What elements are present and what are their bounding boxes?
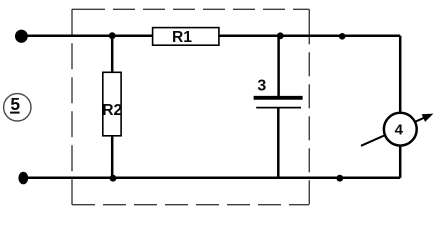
svg-text:3: 3: [257, 78, 266, 95]
enclosure dashed box: [72, 9, 309, 204]
wire: capacitor top lead: [277, 36, 280, 96]
meter U (labelled 4) arrowhead: [422, 114, 434, 122]
svg-text:R1: R1: [172, 29, 192, 46]
circled label 5: [4, 94, 31, 121]
wire: capacitor bottom lead: [277, 108, 280, 178]
junction node at capacitor top: [277, 32, 284, 39]
svg-text:4: 4: [395, 121, 404, 138]
junction node at R2 top: [109, 32, 116, 39]
resistor R2: [102, 72, 122, 136]
resistor R1: [153, 28, 219, 47]
wire: top bus from left terminal to right corner: [21, 35, 400, 38]
wire: R2 branch vertical: [111, 36, 114, 178]
wire: bottom bus from left terminal to right corner: [23, 177, 400, 180]
terminal node bottom-left: [18, 172, 28, 185]
meter U (labelled 4) arrow shaft: [361, 116, 429, 146]
meter U (labelled 4) body circle: [384, 113, 417, 146]
wire: right vertical through meter: [399, 36, 402, 178]
node top-right: [339, 33, 346, 40]
svg-text:5: 5: [10, 94, 20, 114]
capacitor C (labelled 3) top plate: [254, 96, 303, 100]
junction node at R2 bottom: [110, 175, 117, 182]
capacitor C (labelled 3) bottom plate: [256, 107, 301, 109]
node bottom-right: [336, 175, 343, 182]
svg-text:R2: R2: [102, 102, 122, 119]
terminal node top-left: [15, 30, 28, 43]
